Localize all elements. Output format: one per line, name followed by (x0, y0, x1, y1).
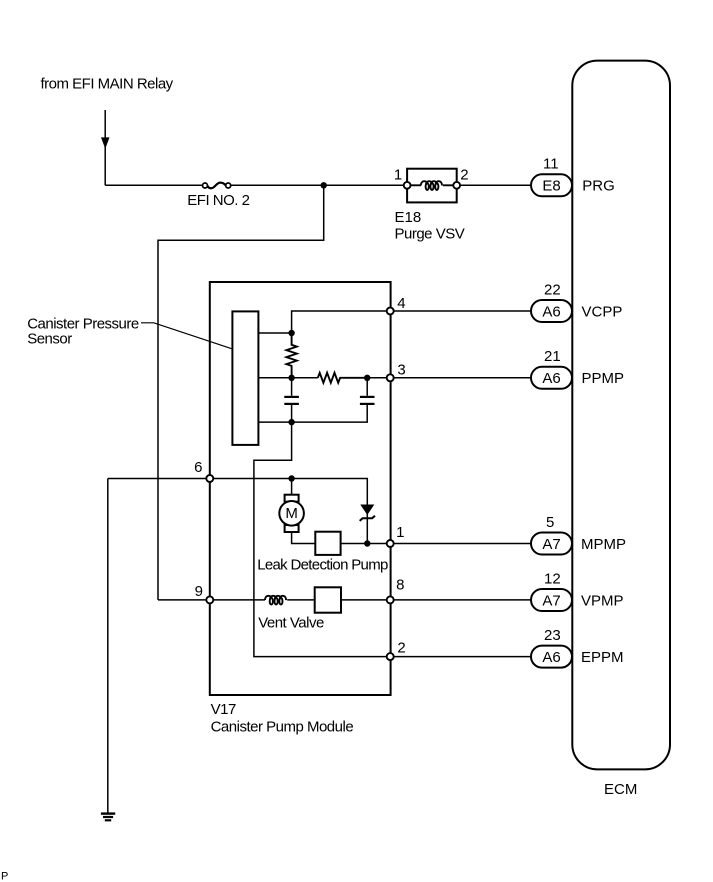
svg-text:A6: A6 (542, 649, 560, 666)
vent valve box (315, 587, 341, 612)
wire: branch down from junction to module feed (158, 185, 324, 600)
svg-text:23: 23 (544, 627, 561, 644)
wire: vent valve box to pin 8 (341, 599, 531, 601)
pin 3 circle (387, 374, 394, 381)
pin 6 circle (206, 475, 213, 482)
svg-text:Sensor: Sensor (27, 331, 72, 348)
svg-text:Leak Detection Pump: Leak Detection Pump (257, 556, 388, 573)
svg-text:Canister Pump Module: Canister Pump Module (211, 718, 354, 735)
svg-text:A7: A7 (542, 592, 560, 609)
resistor R (horizontal, filter) (318, 373, 367, 383)
svg-text:22: 22 (544, 281, 561, 298)
wire: sensor top output to pin 4 (258, 311, 531, 333)
wire: ground drop (107, 479, 109, 814)
wire: pin 6 ground wire (108, 479, 368, 505)
pin 4 circle (387, 308, 394, 315)
svg-text:from EFI MAIN Relay: from EFI MAIN Relay (41, 75, 174, 92)
ECM connector A6 (pin 22, VCPP) (531, 300, 572, 322)
svg-text:1: 1 (394, 166, 402, 183)
svg-text:A6: A6 (542, 303, 560, 320)
junction: motor supply tap (288, 475, 294, 481)
svg-text:3: 3 (397, 362, 405, 379)
purge VSV E18 body (407, 169, 457, 203)
ECM connector E8 (pin 11, PRG) (531, 174, 572, 196)
svg-text:MPMP: MPMP (581, 536, 626, 553)
svg-text:4: 4 (397, 295, 405, 312)
vent valve coil (265, 596, 286, 605)
capacitor C1 (left) (284, 397, 299, 404)
fuse EFI NO. 2 (203, 183, 231, 189)
arrowhead on feed wire (101, 137, 110, 148)
pin 9 circle (206, 596, 213, 603)
resistor R (vertical, sensor divider) (286, 333, 296, 378)
coil of purge VSV (410, 181, 453, 190)
svg-text:9: 9 (195, 583, 203, 600)
svg-text:PPMP: PPMP (582, 370, 625, 387)
svg-text:P: P (1, 871, 8, 882)
zener diode D1 (360, 504, 375, 544)
svg-text:VPMP: VPMP (581, 592, 624, 609)
ECM body (572, 61, 670, 770)
svg-text:EPPM: EPPM (581, 649, 624, 666)
svg-text:ECM: ECM (604, 781, 637, 798)
capacitor C2 (right) (360, 397, 375, 404)
svg-text:E8: E8 (542, 178, 560, 195)
svg-text:EFI NO. 2: EFI NO. 2 (187, 192, 249, 209)
canister pressure sensor body (232, 311, 258, 445)
wire: motor feed down (291, 479, 293, 496)
ECM connector A6 (pin 23, EPPM) (531, 646, 572, 668)
wire: pin 9 vent valve feed (158, 599, 265, 601)
ground symbol (101, 814, 115, 821)
wire: main horizontal feed at y=185 (105, 184, 531, 186)
wire: sensor bottom output (258, 405, 367, 422)
ECM connector A7 (pin 5, MPMP) (531, 533, 572, 555)
pin 1 of purge VSV (404, 182, 411, 189)
pin 8 circle (387, 596, 394, 603)
svg-text:12: 12 (544, 570, 561, 587)
junction: sensor top node (288, 330, 294, 336)
junction at fuse output (321, 182, 327, 188)
junction: R/C node on pin3 wire (364, 375, 370, 381)
wire: feed from EFI MAIN relay (vertical with arrow) (104, 110, 106, 185)
svg-text:5: 5 (546, 514, 554, 531)
wire: sensor ground return to pin 2 (254, 422, 531, 656)
svg-text:A7: A7 (542, 536, 560, 553)
leak detection pump driver box (315, 532, 340, 555)
module V17 body (Canister Pump Module) (210, 282, 391, 695)
svg-text:V17: V17 (211, 701, 236, 718)
pointer line to sensor (141, 323, 232, 349)
junction: sensor bottom node (288, 419, 294, 425)
svg-text:2: 2 (397, 640, 405, 657)
svg-text:6: 6 (194, 459, 202, 476)
svg-text:2: 2 (460, 166, 468, 183)
wire: driver box to pin 1 (341, 543, 531, 545)
ECM connector A7 (pin 12, VPMP) (531, 589, 572, 611)
svg-text:PRG: PRG (582, 178, 615, 195)
junction: diode/pin1 node (364, 540, 370, 546)
motor M (leak detection pump motor) (279, 495, 304, 532)
svg-text:A6: A6 (542, 370, 560, 387)
pin 1 circle (387, 540, 394, 547)
svg-text:Vent Valve: Vent Valve (258, 614, 324, 631)
svg-text:M: M (285, 505, 298, 522)
wire: motor to pump driver box (292, 532, 316, 544)
pin 2 circle (387, 653, 394, 660)
wire: sensor middle output (258, 377, 317, 379)
pin 2 of purge VSV (453, 182, 460, 189)
svg-text:21: 21 (544, 348, 561, 365)
junction: sensor middle node (288, 375, 294, 381)
wire: middle output to pin 3 (340, 377, 531, 379)
svg-text:Purge VSV: Purge VSV (395, 226, 465, 243)
svg-text:11: 11 (543, 156, 559, 173)
ECM connector A6 (pin 21, PPMP) (531, 367, 572, 389)
svg-text:E18: E18 (395, 209, 422, 226)
svg-text:1: 1 (396, 524, 404, 541)
svg-text:8: 8 (396, 576, 404, 593)
svg-text:VCPP: VCPP (582, 303, 623, 320)
wire: coil to vent valve box (287, 599, 315, 601)
